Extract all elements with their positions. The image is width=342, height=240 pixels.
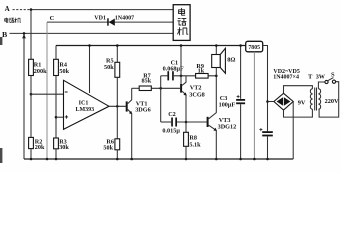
wire IC1 output line [109,105,126,107]
switch S right contact [332,80,335,83]
wire VT3 emitter to rail [215,130,217,159]
wire B line to telephone box [10,32,174,34]
transistor VT3 emitter with arrow [209,125,216,130]
junction dot speaker bottom node [215,75,218,78]
svg-text:C2: C2 [168,111,176,118]
wire R4/R3 column [55,76,57,139]
junction dot R3 on rail [55,158,58,161]
telephone set box [173,5,190,41]
resistor R7 [139,86,151,91]
junction dot R7 line / C-column [159,87,162,90]
wire left column down to bottom rail [23,36,25,159]
svg-text:C: C [50,15,55,22]
wire C2 left lead [161,121,172,123]
transistor VT1 collector [128,88,132,103]
svg-text:50k: 50k [103,145,113,152]
wire 7805 ground pin to rail [253,52,255,159]
junction dot R2 on rail [30,158,33,161]
svg-text:1N4007: 1N4007 [115,16,134,22]
scan edge artifact left top [0,37,2,45]
transformer T primary winding 220V [318,89,320,110]
junction dot R8 on rail [185,158,188,161]
wire R2 bottom to rail [30,149,32,159]
transistor VT1 emitter with arrow [128,109,132,113]
diode VD1 cathode bar [107,18,109,25]
resistor R8 [184,132,189,146]
wire VT1 emitter to rail [131,113,133,159]
wire C3 column bottom to rail [240,104,242,159]
svg-text:3DG12: 3DG12 [218,124,237,131]
svg-text:30k: 30k [59,144,69,151]
junction dot C3 on rail [239,44,242,47]
junction dot speaker on rail [215,44,218,47]
resistor R1 [29,59,34,75]
junction dot C3 on bottom rail [239,158,242,161]
transistor VT3 base bar [207,117,209,127]
op-amp IC1 plus mark [65,115,68,118]
svg-text:85k: 85k [142,77,152,84]
svg-text:1N4007×4: 1N4007×4 [273,74,299,80]
wire C1 right lead to speaker node [174,75,217,77]
wire R2 column [30,94,32,137]
transistor VT2 emitter with arrow [182,91,186,95]
wire C2 right lead to VT3 base [177,121,207,123]
svg-text:VT2: VT2 [190,85,202,92]
svg-text:LM393: LM393 [75,107,94,113]
wire R6 bottom to rail [116,150,118,159]
svg-text:200k: 200k [34,68,47,75]
svg-text:220V: 220V [325,98,339,105]
svg-text:3DG6: 3DG6 [135,107,150,114]
transistor VT3 collector branch [209,76,217,119]
junction dot VT1 emitter on rail [130,158,133,161]
telephone set label 电话机 vertical [178,8,188,35]
diode VD1 triangle [109,19,115,26]
junction dot VT2 emitter / C2 line [185,121,188,124]
arrow head on left column pointing up [22,34,26,39]
svg-text:8Ω: 8Ω [227,57,235,64]
switch S lever [328,78,334,81]
junction dot VT3 emitter on rail [215,158,218,161]
wire VT2 collector column from rail [180,46,182,85]
junction dot bridge positive node [266,100,269,103]
junction dot VT2 collector column [180,75,183,78]
wire non-inverting input line [56,116,64,118]
junction dot 7805 gnd on rail [253,158,256,161]
bridge rectifier diamond [274,93,293,110]
junction dot A / R1 column [30,8,33,11]
svg-text:5.1k: 5.1k [189,141,201,148]
transistor VT2 collector branch [182,76,186,86]
resistor R2 [29,137,34,148]
wire IC1 V+ pin to rail [89,46,91,94]
op-amp IC1 triangle [64,80,110,129]
wire bridge plus to 7805 column [268,101,274,103]
wire R8 bottom to rail [185,146,187,159]
resistor R9 [196,74,209,79]
wire inverting input line [31,93,64,95]
wire bridge minus down to rail end [292,102,294,160]
svg-text:VD1: VD1 [94,16,106,22]
wire R1 column from A line down [30,10,32,60]
resistor R3 [54,138,59,149]
svg-text:50k: 50k [104,64,114,71]
capacitor C3 polarity plus [237,95,240,98]
capacitor C4 polarity plus [259,128,262,131]
wire C1 left lead [161,75,168,77]
svg-text:9V: 9V [298,99,306,106]
wire switch to 220V right side [319,82,339,117]
wire R3 bottom to rail [55,149,57,159]
junction dot R6 on rail [116,158,119,161]
wire C3 column top [240,46,242,99]
wire primary top lead to switch [318,82,325,89]
switch S left contact [325,80,328,83]
junction dot non-inverting node [55,116,58,119]
wire speaker bottom lead [215,68,217,76]
svg-text:3W: 3W [316,74,326,81]
wire VT1 collector to R7 [132,87,140,89]
label 电话机 (telephone line) [5,18,21,23]
svg-text:R8: R8 [189,134,197,141]
wire R5 top to rail [116,46,118,63]
svg-text:B: B [2,30,7,39]
wire R5 bottom to output node [116,77,118,106]
wire 7805 input from bridge column [263,46,268,132]
wire C column down to bottom rail [46,22,48,159]
transistor VT2 base bar [180,84,182,93]
wire R7 to VT2 base [151,87,180,89]
junction dot V+ on rail [88,44,91,47]
wire bridge AC bottom to secondary bottom [284,109,313,117]
svg-text:100μF: 100μF [219,102,236,109]
svg-text:50k: 50k [59,68,69,75]
svg-text:1k: 1k [198,68,205,75]
svg-text:0.015μ: 0.015μ [162,127,180,134]
resistor R6 [115,139,120,150]
junction dot C4 on rail [266,158,269,161]
junction dot output node [116,105,119,108]
capacitor C4 plates [262,131,273,133]
junction dot C column on rail [46,158,49,161]
transformer T secondary winding 9V [310,89,312,110]
wire C4 bottom lead to rail [267,136,269,159]
wire A dashed segment [13,9,30,11]
resistor R5 [115,62,120,77]
svg-text:A: A [5,5,10,13]
wire R6 top from output node [116,106,118,139]
capacitor C1 plates [167,71,169,80]
wire speaker top lead [215,46,217,55]
wire R1 bottom to inverting line [30,76,32,95]
wire +V top rail [56,45,246,47]
svg-text:3CG8: 3CG8 [189,92,204,99]
bottom ground rail [24,158,293,160]
junction dot VT2 column on rail [180,44,183,47]
wire bridge AC top to secondary top [284,86,313,94]
speaker cone [220,48,225,73]
transistor VT1 base bar [126,101,128,111]
svg-text:20k: 20k [35,144,45,151]
capacitor C2 plates [171,118,173,127]
wire A line to telephone box [30,9,173,11]
bridge rectifier diode triangles [277,97,284,106]
wire VT2 emitter down [185,95,187,133]
resistor R4 [54,59,59,75]
wire coupling column C1-C2 [160,76,162,122]
capacitor C3 plates [236,99,245,101]
wire C line to telephone box [47,21,173,23]
junction dot B / left ground column [23,32,26,35]
transformer T core lines [314,88,316,111]
regulator 7805 box [246,41,263,52]
op-amp IC1 minus mark [65,91,68,93]
junction dot R1/R2/minus-line [30,93,33,96]
svg-text:IC1: IC1 [79,101,89,107]
junction dot R5 on rail [116,44,119,47]
scan edge artifact left bottom [0,148,2,163]
wire R4 top to +V rail corner [55,46,57,60]
speaker BL driver box [212,55,221,68]
svg-text:7805: 7805 [248,45,260,51]
svg-text:T: T [308,74,313,81]
